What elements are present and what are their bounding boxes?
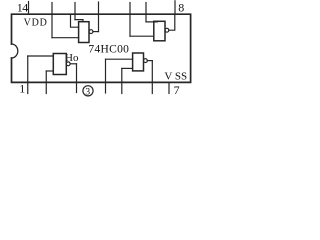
- wire pin1 to U1A input A: [28, 55, 54, 57]
- wire pin2 to U1A input B: [46, 70, 53, 72]
- svg-text:VDD: VDD: [24, 18, 48, 29]
- wire pin10 to U1C input: [130, 35, 154, 37]
- wire edge drop to U1B input A: [71, 14, 79, 27]
- wire pin12 jog: [75, 20, 83, 22]
- wire pin4 to U1D input A: [106, 58, 133, 60]
- pin 1 lead: [27, 56, 29, 94]
- pin 3 lead: [76, 64, 78, 93]
- wire pin9 jog to U1C top: [146, 20, 157, 23]
- svg-text:7: 7: [174, 83, 180, 97]
- NAND gate U1B: [79, 22, 89, 43]
- NAND gate U1A: [53, 54, 66, 75]
- wire U1D output to pin 6: [147, 60, 152, 62]
- pin 2 lead: [45, 71, 47, 94]
- pin 10 lead: [129, 3, 131, 37]
- wire U1A output to pin 3: [70, 63, 76, 65]
- pin 6 lead: [151, 61, 153, 94]
- wire U1C output to pin 8: [169, 14, 175, 30]
- U1A output bubble: [66, 62, 70, 66]
- pin 4 lead: [105, 59, 107, 93]
- svg-text:14: 14: [17, 0, 28, 14]
- pin 5 lead: [121, 68, 123, 93]
- U1C output bubble: [165, 28, 169, 32]
- pin 8 lead: [174, 1, 176, 14]
- svg-text:1: 1: [19, 82, 25, 96]
- pin 12 lead: [74, 3, 76, 20]
- svg-text:V SS: V SS: [164, 70, 187, 82]
- wire U1B output to pin 11: [93, 31, 99, 33]
- pin 7 lead: [168, 82, 170, 93]
- net label 3 (circled): [83, 86, 93, 96]
- pin 14 lead: [28, 2, 30, 15]
- notch: [12, 44, 18, 58]
- pin 13 lead: [51, 3, 53, 38]
- IC package outline: [12, 14, 191, 82]
- svg-text:74HC00: 74HC00: [88, 43, 129, 55]
- svg-text:8: 8: [178, 1, 184, 15]
- NAND gate U1C: [154, 21, 165, 41]
- pin 9 lead: [145, 3, 147, 22]
- svg-text:3: 3: [85, 87, 90, 97]
- wire pin5 to U1D input B: [122, 67, 133, 69]
- pin 11 lead: [98, 2, 100, 32]
- U1B output bubble: [89, 30, 93, 34]
- U1D output bubble: [144, 59, 148, 63]
- NAND gate U1D: [133, 53, 144, 71]
- wire pin13 to U1B input B: [52, 37, 79, 39]
